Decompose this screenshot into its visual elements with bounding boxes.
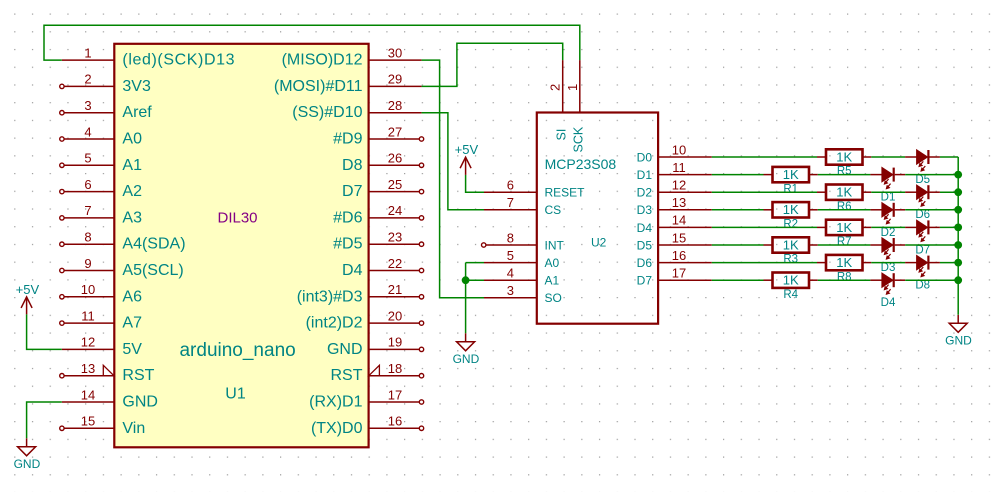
svg-text:15: 15 <box>81 414 95 429</box>
svg-text:U2: U2 <box>591 235 607 249</box>
svg-text:GND: GND <box>122 394 158 411</box>
svg-text:D3: D3 <box>881 262 896 274</box>
svg-text:(TX)D0: (TX)D0 <box>311 420 363 437</box>
svg-text:27: 27 <box>388 124 402 139</box>
svg-text:4: 4 <box>507 266 514 281</box>
svg-text:arduino_nano: arduino_nano <box>179 340 295 361</box>
svg-text:1K: 1K <box>836 220 852 235</box>
svg-text:29: 29 <box>388 72 402 87</box>
svg-text:(SS)#D10: (SS)#D10 <box>292 104 362 121</box>
svg-text:A1: A1 <box>545 274 560 288</box>
svg-text:2: 2 <box>548 84 563 91</box>
svg-text:D6: D6 <box>915 209 930 221</box>
svg-text:13: 13 <box>672 195 686 210</box>
svg-text:1K: 1K <box>836 149 852 164</box>
svg-text:+5V: +5V <box>455 142 479 157</box>
svg-text:A6: A6 <box>122 288 142 305</box>
svg-text:12: 12 <box>81 335 95 350</box>
svg-text:16: 16 <box>672 248 686 263</box>
svg-text:A3: A3 <box>122 209 142 226</box>
svg-text:1K: 1K <box>783 273 799 288</box>
svg-text:1: 1 <box>565 84 580 91</box>
svg-text:13: 13 <box>81 361 95 376</box>
svg-text:CS: CS <box>545 203 562 217</box>
svg-text:26: 26 <box>388 151 402 166</box>
svg-text:RST: RST <box>122 367 154 384</box>
svg-text:GND: GND <box>14 457 41 471</box>
svg-text:DIL30: DIL30 <box>217 210 257 227</box>
svg-text:R3: R3 <box>783 254 798 266</box>
svg-text:10: 10 <box>672 142 686 157</box>
svg-text:Aref: Aref <box>122 104 152 121</box>
svg-text:D2: D2 <box>881 227 896 239</box>
svg-text:22: 22 <box>388 256 402 271</box>
svg-text:A5(SCL): A5(SCL) <box>122 262 183 279</box>
svg-text:GND: GND <box>945 333 972 347</box>
svg-text:#D6: #D6 <box>333 209 362 226</box>
svg-text:A2: A2 <box>122 183 142 200</box>
svg-text:D1: D1 <box>637 168 653 182</box>
svg-text:Vin: Vin <box>122 420 145 437</box>
svg-text:4: 4 <box>84 124 91 139</box>
svg-text:3: 3 <box>507 283 514 298</box>
svg-text:5: 5 <box>507 248 514 263</box>
svg-text:D4: D4 <box>881 297 896 309</box>
svg-text:30: 30 <box>388 45 402 60</box>
svg-text:R7: R7 <box>837 236 852 248</box>
svg-text:R2: R2 <box>783 219 798 231</box>
svg-text:D2: D2 <box>637 186 653 200</box>
svg-text:D5: D5 <box>915 174 930 186</box>
svg-text:25: 25 <box>388 177 402 192</box>
svg-text:18: 18 <box>388 361 402 376</box>
svg-text:12: 12 <box>672 178 686 193</box>
svg-text:8: 8 <box>507 230 514 245</box>
svg-text:R8: R8 <box>837 271 852 283</box>
svg-text:D7: D7 <box>342 183 363 200</box>
svg-text:19: 19 <box>388 335 402 350</box>
svg-text:D7: D7 <box>637 274 653 288</box>
svg-text:10: 10 <box>81 282 95 297</box>
svg-text:14: 14 <box>672 213 686 228</box>
svg-text:#D9: #D9 <box>333 131 362 148</box>
svg-text:9: 9 <box>84 256 91 271</box>
svg-text:14: 14 <box>81 387 95 402</box>
svg-text:(MOSI)#D11: (MOSI)#D11 <box>274 78 363 95</box>
svg-text:1K: 1K <box>836 185 852 200</box>
svg-text:MCP23S08: MCP23S08 <box>545 156 617 172</box>
svg-text:A7: A7 <box>122 315 142 332</box>
svg-text:28: 28 <box>388 98 402 113</box>
svg-text:INT: INT <box>545 238 565 252</box>
svg-text:D8: D8 <box>915 280 930 292</box>
svg-text:R1: R1 <box>783 183 798 195</box>
svg-text:A4(SDA): A4(SDA) <box>122 236 185 253</box>
svg-text:A0: A0 <box>122 131 142 148</box>
svg-text:R6: R6 <box>837 201 852 213</box>
svg-text:5: 5 <box>84 151 91 166</box>
svg-text:24: 24 <box>388 203 402 218</box>
svg-text:D6: D6 <box>637 256 653 270</box>
svg-text:(int2)D2: (int2)D2 <box>306 315 363 332</box>
svg-text:RST: RST <box>331 367 363 384</box>
svg-text:3: 3 <box>84 98 91 113</box>
svg-text:D1: D1 <box>881 192 896 204</box>
svg-text:D3: D3 <box>637 203 653 217</box>
svg-text:+5V: +5V <box>16 282 40 297</box>
svg-text:8: 8 <box>84 230 91 245</box>
svg-text:11: 11 <box>81 308 95 323</box>
svg-text:GND: GND <box>453 352 480 366</box>
svg-text:D4: D4 <box>637 221 653 235</box>
svg-text:#D5: #D5 <box>333 236 362 253</box>
svg-text:21: 21 <box>388 282 402 297</box>
svg-text:11: 11 <box>672 160 686 175</box>
svg-text:23: 23 <box>388 230 402 245</box>
svg-text:15: 15 <box>672 230 686 245</box>
svg-text:A0: A0 <box>545 256 560 270</box>
svg-text:(RX)D1: (RX)D1 <box>309 394 362 411</box>
svg-text:1K: 1K <box>836 255 852 270</box>
svg-text:RESET: RESET <box>545 186 586 200</box>
svg-text:17: 17 <box>672 266 686 281</box>
svg-text:D0: D0 <box>637 150 653 164</box>
svg-text:SCK: SCK <box>571 126 585 152</box>
svg-text:1K: 1K <box>783 202 799 217</box>
svg-text:17: 17 <box>388 387 402 402</box>
svg-text:(led)(SCK)D13: (led)(SCK)D13 <box>122 52 235 69</box>
svg-text:A1: A1 <box>122 157 142 174</box>
svg-text:GND: GND <box>327 341 363 358</box>
svg-text:7: 7 <box>507 195 514 210</box>
svg-text:D7: D7 <box>915 244 930 256</box>
svg-text:R5: R5 <box>837 166 852 178</box>
svg-text:3V3: 3V3 <box>122 78 151 95</box>
svg-text:1K: 1K <box>783 167 799 182</box>
svg-text:U1: U1 <box>225 386 246 403</box>
svg-text:(int3)#D3: (int3)#D3 <box>297 288 363 305</box>
svg-text:D8: D8 <box>342 157 363 174</box>
svg-text:SO: SO <box>545 291 562 305</box>
svg-text:(MISO)D12: (MISO)D12 <box>282 52 363 69</box>
svg-text:7: 7 <box>84 203 91 218</box>
svg-text:6: 6 <box>507 178 514 193</box>
svg-text:20: 20 <box>388 308 402 323</box>
svg-text:1K: 1K <box>783 237 799 252</box>
svg-text:5V: 5V <box>122 341 142 358</box>
svg-text:6: 6 <box>84 177 91 192</box>
svg-text:SI: SI <box>554 129 568 141</box>
svg-text:16: 16 <box>388 414 402 429</box>
svg-text:R4: R4 <box>783 289 798 301</box>
svg-text:D5: D5 <box>637 238 653 252</box>
svg-text:1: 1 <box>84 45 91 60</box>
svg-text:D4: D4 <box>342 262 363 279</box>
svg-text:2: 2 <box>84 72 91 87</box>
